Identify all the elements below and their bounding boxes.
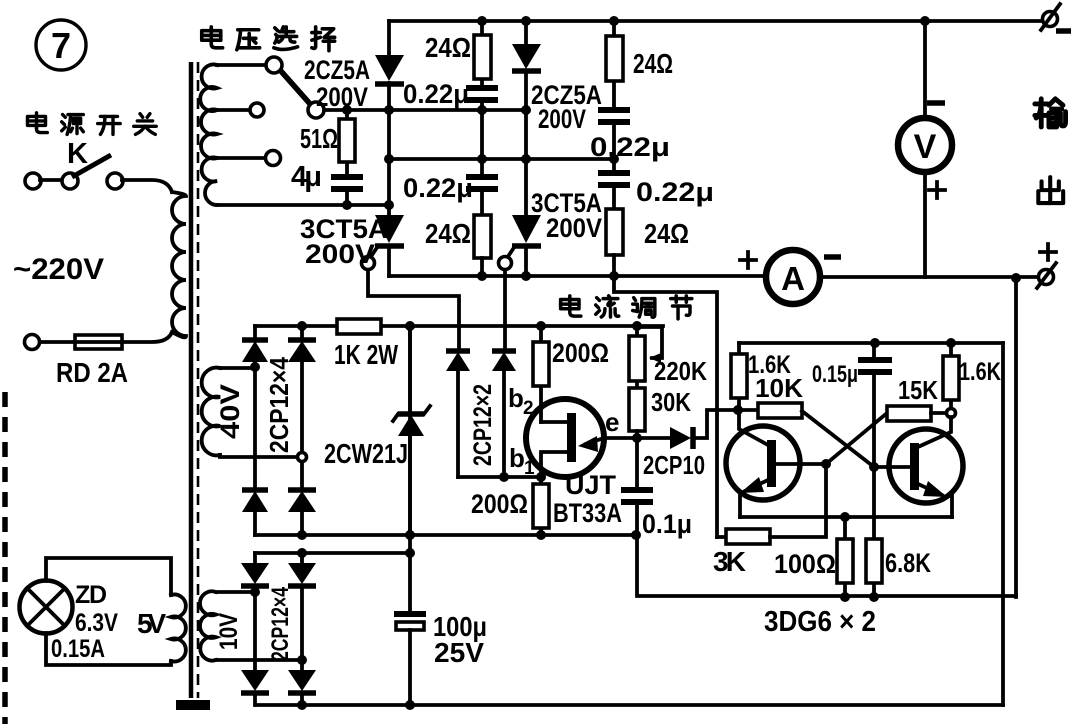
svg-text:40V: 40V — [215, 384, 245, 439]
transistor T2 3DG6 — [889, 429, 963, 503]
capacitor 100u electrolytic — [408, 326, 412, 612]
secondary tap wire mid — [217, 108, 249, 112]
wire flipflop plus rail y343 — [739, 341, 1003, 345]
resistor 1.6K left — [737, 343, 741, 410]
junction dots rail y110 — [342, 105, 352, 115]
plus mark output — [1040, 244, 1056, 260]
wire 10v plus rail y553 — [255, 551, 410, 555]
secondary tap wire low — [217, 156, 265, 160]
pilot lamp ZD — [20, 581, 73, 634]
resistor 1.6K right — [949, 343, 953, 409]
minus mark above V — [927, 100, 945, 106]
wire ammeter to output plus — [820, 275, 1038, 279]
resistor 200ohm lower (b1) — [539, 476, 543, 535]
wire cross couple 10K to T2 base — [802, 411, 874, 467]
plus mark left of A — [740, 252, 756, 268]
resistor 10K — [738, 408, 758, 412]
svg-text:24Ω: 24Ω — [425, 32, 471, 63]
capacitor 0.22u no2 — [466, 177, 498, 189]
T1 base lead — [776, 462, 826, 466]
svg-text:2CP10: 2CP10 — [643, 450, 705, 480]
svg-text:6.3V: 6.3V — [75, 609, 118, 637]
secondary bottom wire rail y205 — [217, 203, 389, 207]
svg-text:2CZ5A: 2CZ5A — [304, 55, 370, 85]
fuse RD — [75, 335, 122, 349]
svg-text:6.8K: 6.8K — [885, 548, 931, 578]
capacitor 4u — [331, 177, 363, 189]
junction dots rail y276 — [477, 271, 487, 281]
svg-text:3K: 3K — [713, 546, 746, 577]
svg-text:5V: 5V — [137, 608, 166, 639]
wire cross couple T1 base to 15K — [826, 413, 887, 464]
svg-text:0.22μ: 0.22μ — [590, 132, 670, 162]
svg-text:K: K — [67, 138, 88, 170]
selector tap terminal top — [266, 57, 282, 73]
wire flipflop common rail y597 — [637, 536, 1016, 596]
pulse diode 2CP12x2 no2 — [492, 348, 516, 354]
wire flipflop right edge to main ground — [1001, 343, 1005, 705]
junction dots 40V bridge — [250, 362, 260, 372]
svg-text:0.15A: 0.15A — [51, 635, 105, 663]
wire aux minus rail y535 — [255, 533, 636, 537]
svg-text:3DG6 × 2: 3DG6 × 2 — [764, 606, 876, 638]
b1 lead — [541, 452, 567, 476]
plus mark below V — [929, 182, 945, 198]
svg-text:0.15μ: 0.15μ — [812, 361, 858, 388]
wire pulse diode bottoms to b1 — [458, 475, 541, 479]
terminal input top — [25, 173, 41, 189]
bridge 2CP12x4 lower: diode E — [253, 553, 257, 670]
bridge diode H — [288, 670, 316, 691]
wire selector rail y110 — [324, 108, 526, 112]
svg-text:30K: 30K — [651, 387, 691, 417]
UJT BT33A — [526, 399, 604, 477]
svg-text:200Ω: 200Ω — [471, 489, 528, 519]
wire gate no1 to pulse diode — [368, 270, 459, 351]
switch K contact — [107, 173, 123, 189]
svg-text:10V: 10V — [215, 613, 243, 650]
label chu (vertical output) — [1038, 177, 1063, 203]
switch K pole — [62, 173, 78, 189]
transistor T1 3DG6 — [726, 426, 800, 500]
svg-text:2CP12×4: 2CP12×4 — [267, 587, 294, 661]
svg-text:200V: 200V — [538, 104, 586, 134]
svg-text:100Ω: 100Ω — [774, 549, 836, 579]
junction dots rail y553 — [297, 548, 307, 558]
junction circle 15K/1.6K — [947, 409, 956, 418]
thyristor 3CT5A no1 — [375, 215, 404, 243]
svg-text:1: 1 — [524, 458, 535, 479]
bridge diode F — [300, 553, 304, 670]
wire top dc rail y21 — [389, 19, 1042, 23]
diode 2CZ5A no1 — [387, 21, 391, 215]
wire rail jog to flipflop feed — [614, 276, 717, 537]
diode 2CP10 — [637, 410, 738, 438]
bridge diode D — [288, 487, 316, 493]
svg-text:2: 2 — [523, 398, 534, 419]
wire to primary top — [122, 180, 172, 192]
T2 emitter lead with arrow — [918, 484, 942, 495]
left page-edge artifact dashes — [2, 392, 8, 724]
svg-text:200Ω: 200Ω — [552, 338, 609, 368]
wire — [40, 340, 75, 344]
svg-text:0.22μ: 0.22μ — [636, 177, 714, 207]
svg-text:200V: 200V — [305, 239, 375, 269]
svg-text:2CP12×4: 2CP12×4 — [264, 357, 294, 453]
wire common emitter line y517 — [740, 515, 952, 519]
transformer 10V winding — [200, 591, 216, 660]
secondary tap wire top — [217, 63, 266, 67]
svg-text:V: V — [914, 128, 937, 166]
resistor 30K — [629, 388, 645, 431]
transformer main secondary winding — [200, 65, 217, 206]
b2 lead — [541, 420, 567, 424]
bridge diode G — [241, 670, 269, 691]
svg-text:24Ω: 24Ω — [425, 218, 471, 249]
wire gate no2 to pulse diode — [503, 270, 507, 351]
svg-text:e: e — [605, 407, 619, 437]
junction dots flipflop — [733, 405, 743, 415]
ac tap circle on diode col — [298, 453, 307, 462]
wire aux rail y326 — [255, 324, 663, 328]
transformer core solid bar — [189, 62, 194, 698]
svg-text:ZD: ZD — [75, 581, 107, 609]
label dianliu tiaojie (current adjust) — [561, 296, 581, 316]
wire output plus down to flipflop rail — [1014, 278, 1018, 597]
minus mark output — [1056, 28, 1071, 34]
transformer core dashed bar — [197, 62, 200, 698]
resistor 6.8K — [872, 467, 876, 597]
selector tap terminal low — [266, 151, 281, 166]
resistor 1K 2W — [337, 319, 381, 334]
svg-text:25V: 25V — [434, 637, 484, 668]
svg-text:2CW21J: 2CW21J — [324, 438, 408, 469]
gate terminal 3CT5A no1 — [362, 257, 375, 270]
svg-text:BT33A: BT33A — [553, 498, 622, 528]
transformer 40V winding — [202, 368, 220, 456]
svg-text:RD 2A: RD 2A — [56, 357, 128, 388]
T2 base lead — [874, 465, 910, 469]
wire — [40, 178, 60, 182]
resistor 24ohm no2 — [474, 215, 491, 258]
svg-text:200V: 200V — [546, 213, 602, 243]
junction dots top rail — [477, 16, 487, 26]
lamp loop wiring — [46, 558, 171, 665]
svg-text:1K 2W: 1K 2W — [334, 339, 398, 370]
svg-text:10K: 10K — [755, 373, 803, 403]
bridge diode B — [300, 326, 304, 489]
gate terminal 3CT5A no2 — [499, 257, 512, 270]
svg-text:A: A — [781, 260, 805, 297]
selector arm — [280, 70, 311, 105]
svg-text:0.22μ: 0.22μ — [403, 79, 469, 109]
svg-text:24Ω: 24Ω — [644, 218, 689, 249]
svg-text:b: b — [509, 443, 525, 473]
T2 emitter wire down — [950, 496, 954, 517]
svg-text:15K: 15K — [898, 375, 938, 405]
svg-text:1.6K: 1.6K — [959, 358, 1001, 386]
T1 emitter wire down — [738, 492, 742, 517]
voltmeter V — [898, 118, 952, 172]
capacitor 0.22u no1 — [466, 88, 498, 100]
zener 2CW21J — [408, 326, 412, 535]
bridge diode C — [242, 487, 268, 493]
potentiometer 220K — [635, 326, 639, 388]
snubber branch mid: resistor 24ohm no1 — [480, 21, 484, 86]
transformer 5V winding — [171, 595, 186, 662]
wire voltmeter branch — [923, 21, 927, 277]
capacitor 0.1u — [635, 438, 639, 488]
resistor 200ohm upper (b2) — [539, 326, 543, 422]
resistor 100ohm — [843, 517, 847, 597]
emitter lead with arrow — [586, 438, 637, 444]
terminal input bottom — [25, 335, 40, 350]
svg-text:220K: 220K — [654, 356, 707, 386]
resistor 24ohm no4 — [606, 209, 623, 255]
thyristor 3CT5A no2 — [512, 215, 541, 243]
T2 collector lead — [918, 417, 951, 447]
svg-text:0.1μ: 0.1μ — [642, 509, 692, 539]
minus mark right of A — [824, 254, 841, 260]
svg-text:24Ω: 24Ω — [633, 48, 673, 79]
snubber branch right: resistor 24ohm no3 — [612, 21, 616, 108]
T1 collector lead — [739, 410, 768, 445]
selector tap terminal mid — [250, 103, 264, 117]
svg-text:51Ω: 51Ω — [300, 123, 338, 154]
selector common terminal — [308, 102, 324, 118]
figure number circle 7 — [36, 20, 86, 70]
svg-text:4μ: 4μ — [291, 161, 322, 193]
label dianyuan kaiguan (power switch) — [28, 113, 48, 133]
svg-text:UJT: UJT — [565, 470, 616, 500]
junction dots rail y326 — [297, 321, 307, 331]
transformer primary winding — [172, 192, 186, 337]
svg-text:2CP12×2: 2CP12×2 — [469, 384, 497, 466]
switch K arm — [72, 155, 111, 177]
capacitor 0.22u no3 — [598, 110, 630, 122]
wire 3K to T1 base node — [770, 464, 826, 537]
svg-text:~220V: ~220V — [13, 253, 104, 286]
resistor 3K — [717, 535, 726, 539]
ammeter A — [766, 250, 820, 304]
wire snubber mid rail y159 — [389, 157, 614, 161]
output terminal plus — [1039, 270, 1054, 285]
svg-text:7: 7 — [51, 25, 71, 66]
diode 2CZ5A no2 — [524, 21, 528, 215]
junction dots 10V bridge — [250, 587, 260, 597]
junction dots pulse network — [499, 472, 509, 482]
bridge 2CP12x4 upper: diode A — [253, 326, 257, 489]
capacitor 0.22u no4 — [598, 173, 630, 185]
junction dots rail y205 — [342, 200, 352, 210]
svg-text:0.22μ: 0.22μ — [403, 173, 473, 203]
wire bottom dc rail y276 — [389, 274, 768, 278]
pulse diode 2CP12x2 no1 — [446, 348, 470, 354]
wire main ground rail y705 — [256, 703, 1003, 707]
svg-text:200V: 200V — [316, 82, 368, 112]
wire to primary bottom — [122, 332, 172, 342]
label shu (vertical output) — [1035, 99, 1066, 127]
output terminal minus — [1043, 12, 1058, 27]
resistor 5ohm — [345, 110, 349, 175]
junction dots rail y535 — [297, 530, 307, 540]
junction dots ground rail — [297, 700, 307, 710]
resistor 15K — [887, 406, 931, 421]
pot wiper arm — [637, 327, 662, 358]
label dianya xuanze (voltage select) — [202, 27, 223, 48]
chassis ground of core — [176, 700, 210, 710]
T1 emitter lead with arrow — [745, 480, 768, 491]
junction dots rail y159 — [384, 154, 394, 164]
capacitor 0.15u — [872, 343, 876, 358]
svg-text:b: b — [508, 383, 524, 413]
